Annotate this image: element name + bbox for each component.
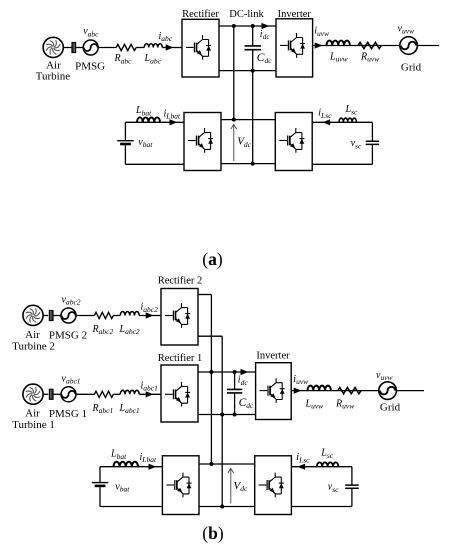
wire: chopper bus bottom (a)	[221, 163, 275, 165]
PMSG generator (a)	[83, 40, 98, 55]
junction rect2 drop on DC+ (b)	[209, 370, 213, 374]
current arrow i_dc (b)	[241, 369, 249, 375]
wire: supercap bottom lead (b)	[351, 489, 353, 507]
air turbine 2 (b)	[23, 305, 43, 325]
shaft coupling chain 1 (b)	[49, 389, 54, 400]
wire: supercap branch bottom (b)	[291, 506, 352, 508]
IGBT U5 rectifier 2 (b)	[165, 303, 190, 328]
wire: turbine to coupling chain 2 (b)	[43, 315, 48, 317]
inductor L_abc1 (b)	[120, 390, 139, 394]
wire: DC- bus (b)	[198, 414, 256, 416]
rectifier 2 box (b)	[161, 289, 198, 346]
wire: chopper bus top (a)	[221, 119, 275, 121]
PMSG 1 generator (b)	[61, 387, 76, 402]
junction rect2 drop bottom (b)	[209, 462, 213, 466]
wire: capacitor bottom lead / right rail (a)	[252, 50, 254, 163]
wire: turbine to coupling (a)	[63, 47, 71, 49]
wire: supercap top lead (b)	[351, 467, 353, 485]
wire: supercap branch bottom (a)	[312, 163, 372, 165]
inductor L_uvw (b)	[308, 386, 331, 391]
inductor L_abc (a)	[144, 44, 162, 48]
svg-text:Air: Air	[46, 59, 61, 71]
current arrow i_abc (a)	[166, 44, 174, 50]
grid source (a)	[400, 37, 418, 55]
junction capacitor bottom (b)	[233, 413, 237, 417]
wire: capacitor top lead (b)	[234, 372, 236, 389]
wire: R to L chain 1 (b)	[113, 393, 120, 395]
resistor R_uvw (b)	[338, 388, 361, 394]
junction right rail bottom (a)	[251, 162, 255, 166]
wire: L to rectifier chain 1 (b)	[139, 393, 161, 395]
current arrow i_Lsc (b)	[297, 464, 305, 470]
resistor R_uvw (a)	[358, 42, 381, 48]
junction top rail capacitor (a)	[251, 24, 255, 28]
svg-text:Air: Air	[25, 408, 40, 420]
wire: battery negative lead (b)	[99, 487, 101, 506]
wire: battery negative lead (a)	[124, 145, 126, 164]
wire: battery branch bottom (b)	[100, 506, 162, 508]
current arrow i_abc2 (b)	[146, 312, 154, 318]
wire: inverter to grid (a)	[313, 45, 400, 47]
current arrow i_dc (a)	[262, 23, 270, 29]
wire: R to L chain 2 (b)	[113, 315, 120, 317]
voltage arrow V_dc (b)	[228, 469, 234, 504]
junction left rail to chopper bus (a)	[232, 118, 236, 122]
svg-text:(b): (b)	[202, 523, 224, 543]
wire: DC- bottom rail (a)	[219, 70, 276, 72]
wire: battery positive lead (a)	[124, 122, 126, 140]
current arrow i_Lsc (a)	[322, 119, 330, 125]
resistor R_abc1 (b)	[94, 391, 113, 397]
inductor L_sc (a)	[339, 118, 356, 122]
wire: supercap bottom lead (a)	[371, 145, 373, 164]
air turbine 1 (b)	[23, 384, 43, 404]
wire: grid to edge (b)	[397, 390, 424, 392]
svg-text:Turbine 1: Turbine 1	[12, 419, 55, 431]
inverter box (a)	[276, 19, 313, 77]
svg-text:PMSG: PMSG	[75, 60, 105, 72]
IGBT U1 rectifier (a)	[186, 35, 211, 60]
supercap converter box (a)	[275, 113, 312, 171]
resistor R_abc2 (b)	[94, 312, 113, 318]
wire: DC+ bus (b)	[198, 371, 256, 373]
junction DC- drop bottom (b)	[220, 505, 224, 509]
IGBT U2 inverter (a)	[280, 33, 305, 58]
current arrow i_abc1 (b)	[146, 391, 154, 397]
grid source (b)	[379, 382, 397, 400]
svg-text:Inverter: Inverter	[278, 9, 312, 20]
wire: inverter to grid (b)	[291, 390, 378, 392]
current arrow i_uvw (a)	[315, 42, 323, 48]
IGBT U3 battery chopper (a)	[188, 128, 213, 153]
wire: supercap branch top (b)	[291, 466, 352, 468]
IGBT U4 supercap chopper (a)	[279, 128, 304, 153]
wire: rect2 DC+ drop (b)	[210, 295, 212, 465]
supercapacitor v_sc (a)	[366, 141, 379, 144]
wire: battery inductor branch top (a)	[125, 121, 184, 123]
wire: rect2 DC- drop (b)	[221, 336, 223, 506]
svg-text:Grid: Grid	[401, 61, 422, 73]
wire: supercap top lead (a)	[371, 122, 373, 141]
rectifier 1 box (b)	[161, 365, 198, 422]
rectifier box (a)	[182, 19, 219, 77]
wire: coupling to PMSG chain 1 (b)	[54, 393, 62, 395]
svg-text:Grid: Grid	[380, 402, 401, 414]
svg-text:Rectifier 1: Rectifier 1	[158, 353, 203, 364]
wire: L to rectifier chain 2 (b)	[139, 315, 161, 317]
inductor L_uvw (a)	[327, 41, 350, 46]
supercapacitor v_sc (b)	[345, 485, 359, 488]
wire: battery branch top (b)	[100, 466, 162, 468]
svg-text:Rectifier 2: Rectifier 2	[158, 275, 203, 286]
wire: turbine to coupling chain 1 (b)	[43, 393, 48, 395]
wire: left DC rail down (a)	[233, 26, 235, 120]
wire: rect2 DC- out (b)	[198, 335, 222, 337]
svg-text:(a): (a)	[202, 249, 223, 269]
wire: coupling to PMSG (a)	[76, 47, 83, 49]
junction bottom rail capacitor (a)	[251, 69, 255, 73]
IGBT U8 battery chopper (b)	[166, 473, 191, 498]
wire: PMSG to R_abc (a)	[98, 47, 116, 49]
capacitor C_dc (b)	[227, 389, 242, 393]
IGBT U7 inverter (b)	[260, 378, 285, 403]
wire: capacitor top lead (a)	[252, 26, 254, 45]
wire: grid to edge (a)	[418, 45, 440, 47]
voltage arrow V_dc (a)	[231, 125, 237, 162]
shaft coupling (a)	[71, 42, 76, 53]
wire: chopper bus top (b)	[199, 463, 255, 465]
inductor L_bat (a)	[137, 117, 160, 122]
wire: L_abc to rectifier (a)	[162, 47, 182, 49]
air turbine (a)	[43, 37, 63, 57]
battery converter box (a)	[184, 113, 221, 171]
wire: PMSG to R_abc2 (b)	[76, 315, 94, 317]
svg-text:Turbine 2: Turbine 2	[12, 340, 55, 352]
current arrow i_uvw (b)	[294, 388, 302, 394]
capacitor C_dc (a)	[245, 46, 262, 50]
wire: supercap branch top (a)	[312, 121, 372, 123]
junction rect2 drop on DC- (b)	[220, 413, 224, 417]
wire: R_abc to L_abc (a)	[136, 47, 144, 49]
inductor L_abc2 (b)	[120, 312, 139, 316]
svg-text:DC-link: DC-link	[229, 9, 264, 20]
PMSG 2 generator (b)	[61, 308, 76, 323]
wire: battery branch bottom (a)	[125, 163, 184, 165]
battery v_bat (b)	[92, 482, 109, 484]
svg-text:Rectifier: Rectifier	[182, 9, 219, 20]
wire: DC+ top rail (a)	[219, 25, 276, 27]
wire: rect2 DC+ out (b)	[198, 294, 211, 296]
IGBT U9 supercap chopper (b)	[259, 473, 284, 498]
wire: PMSG to R_abc1 (b)	[76, 393, 94, 395]
IGBT U6 rectifier 1 (b)	[165, 382, 190, 407]
supercap converter box (b)	[255, 456, 292, 515]
wire: chopper bus bottom (b)	[199, 506, 255, 508]
battery converter box (b)	[162, 456, 199, 515]
inductor L_bat (b)	[114, 462, 138, 467]
resistor R_abc (a)	[116, 44, 136, 50]
svg-text:Turbine: Turbine	[36, 71, 71, 83]
current arrow i_Lbat (b)	[149, 464, 157, 470]
svg-text:Inverter: Inverter	[256, 351, 290, 362]
svg-text:Air: Air	[25, 329, 40, 341]
wire: battery positive lead (b)	[99, 467, 101, 482]
junction capacitor top (b)	[233, 370, 237, 374]
battery v_bat (a)	[117, 140, 134, 142]
junction top rail left (a)	[232, 24, 236, 28]
wire: capacitor bottom lead (b)	[234, 393, 236, 414]
current arrow i_Lbat (a)	[170, 119, 178, 125]
wire: coupling to PMSG chain 2 (b)	[54, 315, 62, 317]
svg-text:PMSG 1: PMSG 1	[49, 408, 87, 420]
inverter box (b)	[256, 363, 292, 420]
svg-text:PMSG 2: PMSG 2	[49, 329, 87, 341]
inductor L_sc (b)	[317, 462, 339, 466]
shaft coupling chain 2 (b)	[49, 310, 54, 321]
